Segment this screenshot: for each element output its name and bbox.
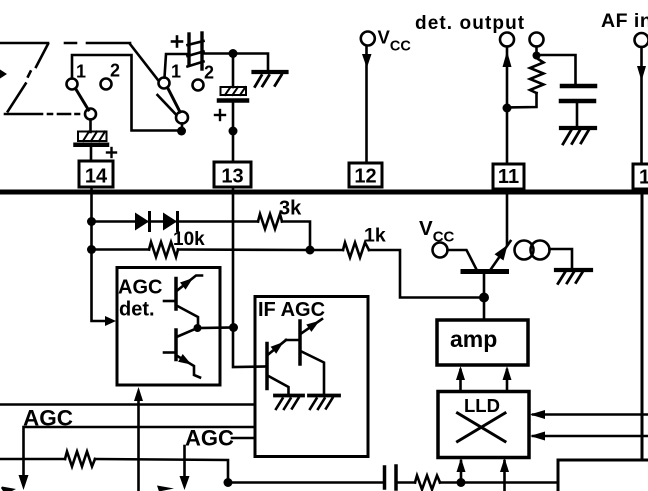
svg-text:1k: 1k (364, 225, 386, 247)
resistor R3 10k (149, 242, 178, 257)
svg-text:10: 10 (639, 167, 648, 189)
svg-text:10k: 10k (173, 229, 205, 250)
pin 12 box (349, 163, 382, 187)
arrow into LLD from right 1 (533, 413, 648, 416)
node Q5 junction (479, 293, 489, 303)
node diode line junction (87, 217, 96, 226)
arrow mark bottom center (157, 486, 174, 491)
wire C1 to pin 14 (90, 147, 93, 161)
svg-text:VCC: VCC (378, 27, 412, 55)
arrow down on AF wire (637, 66, 646, 81)
svg-text:AGC: AGC (23, 406, 73, 431)
transformer T1 (515, 241, 550, 260)
transistor Q5 emitter with arrow (491, 241, 511, 269)
block AGC det box (117, 268, 220, 386)
terminal det output circle 1 (500, 33, 514, 47)
resistor R4 1k (343, 243, 369, 258)
node top junction (229, 49, 238, 58)
wire C4 to ground (576, 103, 579, 126)
wire C2 to ground corner (202, 54, 268, 71)
ground chassis T1 (556, 270, 591, 284)
IC bottom notch horizontal (558, 459, 648, 462)
node S2 pole junction (177, 127, 186, 136)
arrow up into LLD right (503, 461, 506, 491)
switch S1 pole (85, 109, 96, 120)
transistor Q1 emitter (177, 306, 199, 326)
arrow entering left edge (0, 70, 7, 79)
transistor Q4 collector with arrow (301, 319, 323, 334)
wire top-left solid segment (0, 42, 48, 45)
wire Q junction to pin13 line (198, 326, 234, 329)
arrow into AGC det (105, 316, 116, 326)
LLD cross X (458, 413, 506, 442)
wire S1 pole down (89, 120, 92, 133)
transistor Q4 base stub (286, 339, 300, 342)
wire AGC line 1 (0, 403, 255, 406)
wire 3k to node (282, 222, 310, 251)
capacitor C2 electrolytic vertical (189, 33, 202, 69)
svg-text:2: 2 (204, 63, 214, 83)
wire D2 to 3k (177, 220, 258, 223)
switch S2 motion stroke (158, 95, 176, 114)
terminal AF in circle (635, 33, 648, 47)
node bottom corner (224, 478, 233, 487)
wire pin 11 down to transformer (506, 189, 509, 245)
wire gang diagonal to switch S2 (130, 44, 158, 80)
transistor Q2 base bar (174, 330, 178, 360)
svg-text:14: 14 (85, 166, 108, 188)
switch S2 contact 2 (193, 80, 204, 91)
svg-text:amp: amp (450, 326, 497, 352)
wire diagonal dash enclosure left (8, 44, 48, 111)
svg-text:3k: 3k (279, 198, 302, 220)
switch S1 contact 1 (67, 79, 78, 90)
ground chassis IF AGC left (275, 396, 303, 410)
capacitor C3 solid plate (219, 98, 247, 103)
capacitor C1 hatched plate (78, 132, 107, 142)
transistor Q2 emitter with arrow (177, 356, 201, 378)
node det output junction (503, 104, 512, 113)
svg-text:AF in: AF in (601, 10, 648, 32)
wire Vcc2 to Q5 collector (448, 250, 477, 269)
switch S2 contact 1 (159, 78, 170, 89)
wire 10k line (96, 248, 149, 251)
IC bottom notch vertical (557, 460, 560, 491)
transistor Q2 base stub (164, 351, 176, 354)
wire 10k to node (178, 248, 310, 251)
wire junction down to C3 (232, 54, 235, 88)
switch S1 blade (76, 89, 89, 111)
svg-text:det. output: det. output (415, 13, 525, 34)
svg-text:2: 2 (110, 61, 120, 81)
capacitor C5 (385, 466, 397, 489)
wire AF in to pin 10 (640, 47, 643, 164)
wire det output to pin 11 (506, 47, 509, 165)
wire pin 13 down to IF AGC (233, 187, 267, 367)
arrow up into LLD left (460, 461, 463, 483)
capacitor C2 polarity + (172, 37, 182, 47)
resistor R1 vertical (530, 58, 544, 93)
pin 11 box (493, 164, 524, 189)
pin 13 box (214, 162, 251, 187)
capacitor C3 hatched plate (221, 87, 247, 95)
node Q1/Q2 junction (194, 324, 202, 332)
node pin13 top junction (229, 127, 238, 136)
wire R6 to LLD node (440, 481, 558, 484)
pin 10 box (633, 164, 648, 189)
ground chassis det (561, 128, 595, 144)
capacitor C1 solid plate (76, 143, 108, 148)
IC right edge (641, 192, 644, 460)
svg-text:det.: det. (119, 299, 155, 321)
wire S2 contact1 up to C2 (165, 54, 188, 78)
wire top-left dash-dot gang line (65, 42, 130, 45)
transistor Q3 emitter (268, 376, 289, 396)
wire T1 to ground (550, 249, 573, 268)
transistor Q1 collector with arrow (177, 276, 203, 292)
diode D1 (135, 213, 149, 231)
wire bottom dash-dot gang line (5, 113, 79, 116)
switch S2 pole (176, 112, 188, 124)
transistor Q4 base bar (298, 321, 302, 364)
arrow up into AGC det bottom (137, 398, 140, 491)
transistor Q2 collector (177, 328, 198, 337)
wire circle2 to node (535, 47, 538, 57)
switch S2 blade (168, 88, 181, 113)
wire diode line (96, 220, 135, 223)
wire Q5 base down (483, 274, 486, 320)
terminal Vcc circle (361, 32, 375, 46)
IC top edge (0, 190, 648, 195)
wire C3 to pin 13 junction (232, 103, 235, 162)
svg-text:AGC: AGC (185, 426, 234, 451)
wire S2 pole to junction (181, 124, 184, 132)
transistor Q1 base stub (164, 300, 176, 303)
block amp box (437, 320, 528, 365)
arrow mark bottom left corner (1, 487, 16, 491)
wire C5 to R6 (397, 481, 415, 484)
svg-text:1: 1 (76, 62, 86, 82)
node LLD bottom junction (457, 478, 466, 487)
wire AGC 2 down arrow (183, 446, 186, 477)
capacitor C1 polarity + (107, 148, 116, 157)
arrow LLD to amp left (459, 370, 462, 391)
node 10k line junction (87, 245, 96, 254)
resistor R5 (65, 452, 95, 467)
diode D2 (163, 213, 177, 231)
pin 14 box (79, 161, 113, 187)
wire node to 1k (310, 249, 343, 252)
resistor R2 3k (258, 214, 282, 229)
wire AGC 2 label line (232, 437, 255, 440)
terminal det output circle 2 (530, 33, 544, 47)
wire S1 contact1 to S2 pole (72, 55, 182, 131)
capacitor C3 polarity + (215, 110, 225, 120)
svg-text:LLD: LLD (464, 395, 500, 416)
block LLD box (438, 392, 529, 458)
arrow into LLD from right 2 (533, 435, 648, 438)
wire pin 14 down with AGC det arrow (92, 187, 107, 321)
svg-text:AGC: AGC (118, 277, 162, 299)
wire circle2 to C4 (537, 55, 576, 84)
wire bottom bus left (228, 481, 383, 484)
wire AGC line 2 with down arrow (24, 427, 256, 476)
ground chassis top (254, 72, 287, 87)
svg-text:11: 11 (498, 166, 519, 188)
node AGC det output junction (229, 323, 238, 332)
svg-text:IF AGC: IF AGC (258, 299, 325, 321)
wire bottom left line (0, 458, 65, 461)
switch S1 contact 2 (101, 79, 112, 90)
arrow LLD to amp right (506, 370, 509, 391)
arrow up on det output wire (503, 51, 512, 67)
svg-text:13: 13 (221, 166, 243, 188)
svg-text:1: 1 (171, 62, 181, 82)
transistor Q3 collector with arrow (268, 340, 287, 355)
svg-text:VCC: VCC (419, 217, 455, 246)
arrow down on Vcc wire (362, 54, 372, 68)
ground chassis IF AGC right (309, 396, 339, 410)
transistor Q5 base bar (463, 269, 507, 274)
wire D1 to D2 (149, 220, 163, 223)
transistor Q4 emitter (301, 351, 325, 395)
block IF AGC box (255, 297, 368, 457)
wire 1k to transistor base (369, 250, 479, 298)
wire Vcc to pin 12 (365, 46, 368, 163)
wire R5 to corner (95, 459, 228, 483)
transistor Q3 base bar (265, 344, 269, 389)
terminal Vcc 2 circle (433, 243, 448, 258)
resistor R6 (415, 476, 440, 490)
node below circle 2 (533, 52, 541, 60)
node 3k/1k junction (306, 246, 315, 255)
transistor Q1 base bar (174, 279, 178, 310)
svg-text:12: 12 (354, 166, 376, 188)
capacitor C4 (561, 86, 595, 101)
wire R1 bottom to node (507, 93, 537, 108)
